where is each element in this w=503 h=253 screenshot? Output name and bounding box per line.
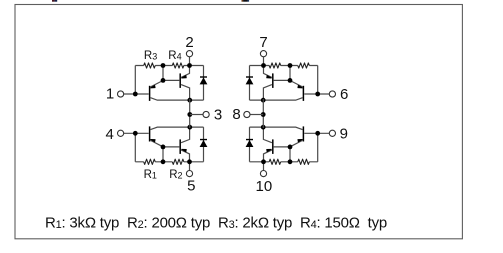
cropped text remnant left — [52, 0, 55, 2]
wire: pin3 wire — [190, 114, 203, 116]
diode D2 lower-left — [200, 127, 208, 162]
svg-text:R4: R4 — [168, 50, 181, 62]
wire: pin8 wire — [250, 114, 263, 116]
block lower-right mirrored both — [250, 125, 336, 177]
wire: shared output rail right — [262, 99, 264, 128]
block upper-left (Q1,Q2,R3,R4) — [118, 51, 204, 103]
junction dot pin3 — [187, 112, 192, 117]
svg-text:4: 4 — [106, 126, 114, 143]
block lower-left (Q3,Q4,R1,R2) mirrored vertically — [118, 125, 204, 177]
svg-text:8: 8 — [232, 106, 240, 123]
svg-text:R1: 3kΩ typ R2: 200Ω typ R3:: R1: 3kΩ typ R2: 200Ω typ R3: 2kΩ typ R4:… — [45, 214, 387, 231]
svg-text:9: 9 — [340, 126, 348, 143]
pin 3 circle — [203, 111, 209, 117]
svg-text:10: 10 — [256, 178, 273, 195]
svg-text:5: 5 — [187, 178, 195, 195]
diode D1 upper-left — [200, 66, 208, 101]
svg-text:R3: R3 — [144, 50, 157, 62]
svg-text:R1: R1 — [144, 169, 157, 181]
svg-text:2: 2 — [185, 34, 193, 51]
svg-text:R2: R2 — [169, 169, 182, 181]
wire: shared output rail left — [189, 99, 191, 128]
block upper-right mirrored horizontally — [250, 51, 336, 103]
cropped text remnant right — [242, 0, 244, 2]
junction dot pin8 — [261, 112, 266, 117]
svg-text:6: 6 — [340, 86, 348, 103]
svg-text:1: 1 — [106, 86, 114, 103]
diode D4 lower-right — [246, 127, 254, 162]
pin 8 circle — [244, 111, 250, 117]
diode D3 upper-right — [246, 66, 254, 101]
svg-text:7: 7 — [259, 34, 267, 51]
svg-text:3: 3 — [214, 106, 222, 123]
